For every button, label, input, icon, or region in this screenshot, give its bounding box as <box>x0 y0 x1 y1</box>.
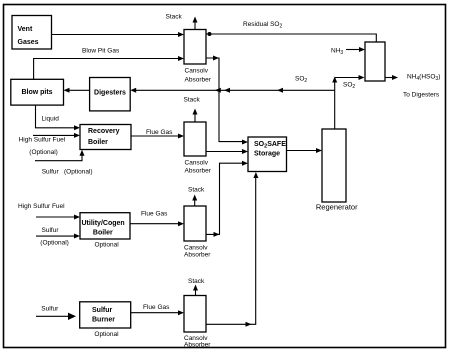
box Regenerator <box>316 129 358 212</box>
wire High Sulfur Fuel to Recovery Boiler <box>33 133 80 138</box>
svg-text:Blow pits: Blow pits <box>21 89 52 96</box>
svg-text:Storage: Storage <box>254 151 280 158</box>
svg-text:Sulfur: Sulfur <box>92 307 112 314</box>
wire Absorber 1 rich amine down to SO2SAFE Storage <box>206 56 248 145</box>
svg-text:Boiler: Boiler <box>88 139 108 146</box>
svg-text:(Optional): (Optional) <box>40 240 69 247</box>
svg-text:Sulfur: Sulfur <box>41 306 59 313</box>
svg-text:High Sulfur Fuel: High Sulfur Fuel <box>18 203 65 210</box>
svg-text:Cansolv: Cansolv <box>184 245 208 252</box>
svg-text:Stack: Stack <box>166 14 183 21</box>
svg-text:Cansolv: Cansolv <box>185 160 209 167</box>
wire Sulfur to Sulfur Burner <box>36 313 76 320</box>
box SO2SAFE Storage <box>248 137 287 172</box>
wire Absorber 2 to SO2SAFE Storage <box>206 149 248 154</box>
svg-text:Sulfur: Sulfur <box>42 227 60 234</box>
wire Flue Gas Recovery Boiler to Cansolv Absorber 2 <box>131 134 184 139</box>
svg-text:Vent: Vent <box>18 26 33 33</box>
svg-text:Stack: Stack <box>188 278 205 285</box>
svg-text:Absorber: Absorber <box>184 252 211 259</box>
wire NH4(HSO3) product <box>385 75 398 80</box>
box Cansolv Absorber 4 <box>184 296 211 349</box>
wire Stack 1 <box>193 17 198 30</box>
svg-text:To Digesters: To Digesters <box>403 92 440 99</box>
svg-text:Burner: Burner <box>92 317 115 324</box>
box Blow pits <box>11 79 64 105</box>
box Vent Gases <box>12 16 52 50</box>
wire Absorber 3 up to SO2SAFE Storage <box>206 161 248 237</box>
svg-text:Regenerator: Regenerator <box>316 203 358 212</box>
svg-text:Absorber: Absorber <box>185 168 212 175</box>
wire Flue Gas Sulfur Burner to Cansolv Absorber 4 <box>131 310 184 315</box>
wire Sulfur to Recovery Boiler bottom <box>35 150 85 161</box>
wire Stack 3 <box>192 195 197 207</box>
wire Absorber 4 up to SO2SAFE Storage bottom <box>206 172 258 327</box>
svg-text:Sulfur: Sulfur <box>42 169 60 176</box>
wire NH3 feed <box>346 47 365 52</box>
svg-text:Absorber: Absorber <box>185 77 212 84</box>
svg-text:Gases: Gases <box>18 39 39 46</box>
wire Stack 2 <box>193 109 198 122</box>
wire Residual SO2 from Absorber 1 to NH3 scrubber <box>206 32 376 42</box>
wire Vent Gases to Cansolv Absorber 1 <box>52 32 185 37</box>
svg-text:Stack: Stack <box>184 97 201 104</box>
svg-text:Flue Gas: Flue Gas <box>143 304 170 311</box>
svg-text:Stack: Stack <box>188 187 205 194</box>
wire SO2SAFE Storage to Regenerator <box>287 148 323 153</box>
svg-text:Flue Gas: Flue Gas <box>141 211 168 218</box>
box Utility/Cogen Boiler <box>80 213 130 239</box>
wire Sulfur to Utility Boiler <box>36 234 80 239</box>
node junction dot <box>208 32 212 36</box>
wire High Sulfur Fuel to Utility Boiler <box>36 215 80 220</box>
svg-text:Utility/Cogen: Utility/Cogen <box>82 220 125 227</box>
svg-text:Optional: Optional <box>95 241 120 248</box>
svg-text:Digesters: Digesters <box>94 90 126 97</box>
box Cansolv Absorber 3 <box>184 206 211 259</box>
box Cansolv Absorber 2 <box>184 122 212 175</box>
svg-text:Recovery: Recovery <box>88 128 120 135</box>
svg-text:Blow Pit Gas: Blow Pit Gas <box>82 48 120 55</box>
wire Stack 4 <box>193 285 198 296</box>
svg-text:High Sulfur Fuel: High Sulfur Fuel <box>19 137 66 144</box>
svg-text:Optional: Optional <box>94 331 119 338</box>
svg-text:Cansolv: Cansolv <box>185 68 209 75</box>
wire Flue Gas Utility Boiler to Cansolv Absorber 3 <box>130 221 184 226</box>
svg-text:Flue Gas: Flue Gas <box>146 129 173 136</box>
svg-text:Boiler: Boiler <box>93 230 113 237</box>
wire Liquid from Blow pits to Recovery Boiler <box>36 105 81 130</box>
wire Digesters to Blow pits <box>64 88 90 93</box>
box Recovery Boiler <box>80 125 131 150</box>
svg-text:(Optional): (Optional) <box>29 149 58 156</box>
box Sulfur Burner <box>80 302 131 328</box>
box Digesters <box>90 78 131 111</box>
wire Blow Pit Gas riser and run to Cansolv Absorber 1 <box>34 56 184 79</box>
svg-text:Liquid: Liquid <box>42 116 60 123</box>
svg-text:(Optional): (Optional) <box>64 169 93 176</box>
wire SO2 from Regenerator top <box>332 75 364 129</box>
box NH3 scrubber <box>365 42 385 81</box>
wire SO2 return to Digesters <box>130 88 335 93</box>
box Cansolv Absorber 1 <box>184 30 212 84</box>
svg-text:Absorber: Absorber <box>184 342 211 349</box>
